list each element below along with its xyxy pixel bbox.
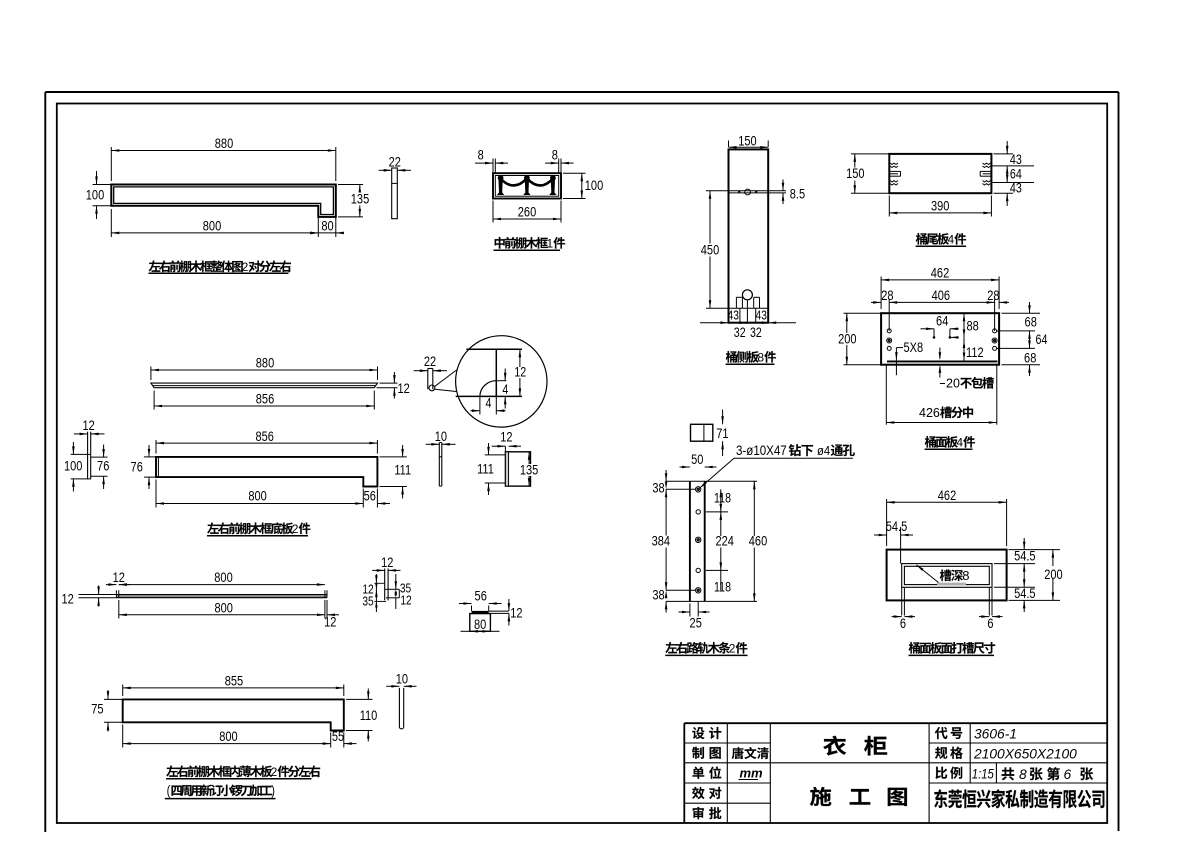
detail dim 4 vertical: [500, 369, 511, 409]
dim 800 bottom: [111, 209, 335, 237]
svg-text:460: 460: [749, 533, 767, 549]
svg-text:8: 8: [1019, 767, 1027, 782]
svg-text:462: 462: [931, 265, 949, 281]
svg-text:20: 20: [946, 377, 960, 391]
svg-text:56: 56: [364, 488, 376, 504]
dim 880: [151, 355, 378, 380]
right cross-section profile 12/111/135: [505, 452, 530, 486]
label 桶面板面打槽尺寸: [909, 642, 996, 655]
dims 6 6 bottom: [892, 615, 1003, 631]
dim 135 right: [338, 185, 369, 217]
label 桶侧板8件: [726, 351, 776, 365]
svg-text:12: 12: [381, 555, 393, 571]
dim 460 right: [747, 481, 768, 601]
svg-text:1: 1: [547, 237, 554, 251]
label 5X8 with leader: [895, 340, 923, 375]
svg-text:800: 800: [219, 729, 237, 745]
svg-text:64: 64: [1036, 332, 1048, 348]
svg-text:135: 135: [520, 462, 538, 478]
svg-text:43: 43: [728, 308, 739, 322]
leader 3-Ø10X47钻下 Ø4通孔: [700, 443, 855, 488]
svg-text:75: 75: [91, 701, 103, 717]
svg-text:54.5: 54.5: [1014, 586, 1035, 602]
sheet 共8张第6张: [1002, 767, 1094, 782]
dim 111 right (row B): [380, 445, 413, 499]
dim 75 left: [91, 690, 122, 732]
svg-text:12: 12: [500, 429, 512, 445]
dim 22 of detail bar: [414, 354, 447, 372]
label 左右前棚木框整体图2对分左右: [149, 260, 291, 274]
svg-text:76: 76: [131, 459, 143, 475]
dim 462 top: [887, 488, 1007, 546]
svg-text:8.5: 8.5: [790, 186, 805, 202]
detail geometry inside balloon: [456, 349, 522, 396]
bottom tenon cluster with circle: [729, 290, 769, 323]
dim 12 bottom right (row C): [324, 600, 339, 630]
svg-text:8: 8: [552, 147, 558, 163]
label 左右路轨木条2件: [665, 642, 747, 656]
svg-text:200: 200: [1044, 567, 1062, 583]
svg-text:2: 2: [292, 522, 299, 536]
dim 200 left: [838, 313, 881, 365]
svg-text:38: 38: [652, 587, 664, 603]
svg-text:880: 880: [256, 355, 274, 371]
svg-text:25: 25: [690, 615, 702, 631]
product name 衣柜: [823, 736, 887, 756]
svg-text:50: 50: [691, 452, 703, 468]
svg-text:10: 10: [396, 671, 408, 687]
dim 12 top of right profile: [492, 429, 521, 452]
svg-text:2: 2: [271, 765, 278, 779]
svg-text:12: 12: [510, 605, 522, 621]
dim 800 bottom (row C): [119, 600, 325, 619]
svg-text:12: 12: [324, 614, 336, 630]
svg-text:43: 43: [756, 308, 767, 322]
dim 855 top: [123, 673, 344, 696]
svg-text:12: 12: [398, 381, 410, 397]
dim 12 right of 56 profile: [508, 599, 523, 626]
right hole group: [992, 329, 997, 351]
svg-text:64: 64: [1010, 166, 1022, 182]
part outline: 桶侧板 (tall side board): [729, 149, 769, 322]
dim 50 top: [680, 452, 717, 469]
svg-text:406: 406: [932, 288, 950, 304]
part outline: 中前棚木框 (frame with swag ornament): [493, 159, 561, 199]
drafter name 唐文清: [732, 747, 744, 759]
dim 150 top: [729, 133, 769, 149]
dim 880 top: [111, 136, 335, 181]
svg-text:4: 4: [502, 382, 508, 398]
svg-text:54.5: 54.5: [1014, 548, 1035, 564]
dim 28 406 28: [871, 288, 1009, 331]
dims 54.5 54.5 200 right: [994, 538, 1064, 612]
label 中前棚木框1件: [494, 237, 566, 251]
title block grid: [684, 723, 1106, 823]
dim 462 top: [881, 265, 999, 309]
dim 450 left: [700, 191, 729, 309]
dim 12 right of bar: [377, 372, 410, 399]
title block left labels: [692, 727, 721, 819]
svg-text:28: 28: [881, 288, 893, 304]
detail dim 12: [513, 349, 527, 396]
svg-text:800: 800: [248, 488, 266, 504]
svg-text:4: 4: [485, 395, 491, 411]
svg-text:76: 76: [97, 458, 109, 474]
svg-text:462: 462: [938, 488, 956, 504]
dim 8 left stub: [475, 147, 508, 164]
svg-text:3-ø10X47: 3-ø10X47: [736, 443, 787, 458]
svg-text:5X8: 5X8: [904, 340, 924, 356]
dim 56: [459, 588, 502, 611]
dim 12 far left thickness (row C): [61, 586, 116, 607]
svg-text:8: 8: [478, 147, 484, 163]
svg-text:): ): [271, 783, 275, 799]
dim 12 top of left profile: [74, 418, 105, 435]
svg-text:43: 43: [1010, 180, 1022, 196]
svg-text:800: 800: [203, 218, 221, 234]
strip outline: [666, 481, 757, 601]
dim 10: [426, 429, 456, 446]
svg-text:855: 855: [225, 673, 243, 689]
svg-text:ø4: ø4: [817, 443, 830, 458]
svg-text:150: 150: [846, 166, 864, 182]
dims 68 64 68 right: [997, 302, 1048, 376]
dim 100 left: [86, 171, 112, 219]
holes on strip: [696, 487, 701, 593]
svg-text:450: 450: [701, 242, 719, 258]
profile bar 22 with detail marker: [428, 369, 435, 391]
detail dim 4 horizontal: [471, 395, 506, 414]
svg-text:4: 4: [956, 436, 963, 450]
svg-text:800: 800: [214, 600, 232, 616]
svg-text:68: 68: [1024, 350, 1036, 366]
thin bar 10 (row D): [399, 688, 403, 729]
svg-text:856: 856: [256, 391, 274, 407]
svg-text:2: 2: [729, 642, 736, 656]
part outline: 桶面板 (top board with holes and groove): [881, 313, 999, 365]
center fastener dots and dim 64: [921, 313, 959, 339]
part outline: 桶尾板 (board with end tenons): [889, 154, 991, 193]
svg-text:56: 56: [475, 588, 487, 604]
dim 260 bottom: [493, 201, 561, 223]
label 左右前棚木框底板2件: [207, 522, 310, 536]
right labels 代号 规格 比例: [935, 727, 963, 779]
svg-text:426: 426: [919, 406, 940, 420]
dim 56 (row B): [364, 488, 390, 507]
swag ornament inside frame: [498, 176, 556, 195]
svg-text:68: 68: [1025, 314, 1037, 330]
svg-text:32: 32: [734, 325, 746, 341]
dim 800 bottom (row D): [123, 725, 331, 748]
svg-text:118: 118: [714, 579, 731, 595]
svg-text:6: 6: [900, 616, 906, 632]
label 左右前棚木框内薄木板2件分左右: [166, 765, 320, 779]
part outline: 左右前棚木框整体图 (frame bar with step): [111, 185, 335, 217]
groove lines 8.5: [729, 191, 787, 193]
inner drawing border: [57, 104, 1107, 824]
groove length extension 426槽分中: [886, 365, 997, 425]
svg-text:22: 22: [389, 154, 401, 170]
label 桶面板4件: [925, 436, 975, 450]
dim 856 top (row B): [156, 429, 377, 454]
svg-text:111: 111: [477, 461, 494, 477]
left cross-section profile 12/100/76: [71, 432, 108, 480]
svg-text:88: 88: [967, 318, 979, 334]
top small rect with dim 71: [691, 410, 729, 457]
main part 底板 outline (row B): [156, 457, 377, 487]
right dims 35/12 of L profile: [395, 574, 412, 609]
svg-text:260: 260: [518, 204, 536, 220]
svg-text:384: 384: [652, 533, 670, 549]
svg-text:12: 12: [61, 591, 73, 607]
dim 80 bottom right: [310, 218, 344, 234]
svg-text:224: 224: [715, 533, 733, 549]
thin bar 10 profile: [439, 443, 442, 487]
dim 25 bottom: [679, 601, 710, 630]
svg-text:2: 2: [242, 260, 249, 274]
dim 390 bottom: [889, 196, 991, 217]
svg-text:100: 100: [64, 458, 82, 474]
svg-text:12: 12: [514, 364, 526, 380]
svg-text:135: 135: [351, 191, 369, 207]
56/80 end profile: [470, 611, 509, 631]
svg-text:8: 8: [962, 568, 969, 583]
label 桶尾板4件: [916, 233, 966, 247]
svg-text:22: 22: [424, 354, 436, 370]
outer drawing border: [45, 92, 1118, 832]
dim 10 (row D): [386, 671, 416, 688]
dim 100 right: [563, 173, 603, 198]
leader lines to detail circle: [435, 370, 457, 392]
part outline 855 (row D): [123, 699, 344, 730]
dim 8 right stub: [545, 147, 574, 164]
thin board 880/856 edge view: [151, 383, 378, 388]
end profile bar 22 of drawing1: [392, 168, 398, 219]
dim 856 below bar: [154, 391, 374, 410]
dim 100 left profile: [64, 442, 82, 492]
dim 800 top (row C): [119, 570, 325, 586]
svg-text:12: 12: [400, 593, 411, 607]
svg-text:35: 35: [362, 594, 374, 608]
svg-text:32: 32: [750, 325, 762, 341]
dim 8.5 right: [782, 180, 805, 205]
left tenon: [889, 163, 900, 185]
svg-text:28: 28: [987, 288, 999, 304]
left hole group: [887, 329, 892, 351]
dim 800 bottom (row B): [156, 480, 363, 508]
svg-text:55: 55: [332, 729, 344, 745]
svg-text:10: 10: [435, 429, 447, 445]
svg-text:12: 12: [82, 418, 94, 434]
svg-text:2100X650X2100: 2100X650X2100: [973, 747, 1077, 762]
dim 43 32 32 43 bottom: [700, 308, 796, 340]
svg-text:200: 200: [838, 331, 856, 347]
dim 55 (row D): [332, 729, 357, 748]
svg-text:800: 800: [214, 570, 232, 586]
svg-text:390: 390: [931, 198, 949, 214]
unit mm: [739, 766, 764, 781]
dim 135 inside right profile: [520, 452, 539, 486]
dim 88 and 112 vertical: [963, 313, 984, 360]
middle dims 118 224 118: [706, 489, 735, 595]
svg-text:110: 110: [360, 708, 378, 724]
svg-text:111: 111: [394, 462, 411, 478]
dim 12 top of L profile: [372, 555, 400, 572]
svg-text:mm: mm: [740, 766, 764, 781]
dim 111 left of right profile: [477, 443, 505, 495]
part outline 462x200 with groove: [887, 550, 1007, 601]
dim 12 top-left tab (row C): [106, 570, 130, 586]
svg-text:80: 80: [474, 617, 486, 633]
company 东莞恒兴家私制造有限公司: [934, 789, 1104, 808]
svg-text:1:15: 1:15: [972, 767, 995, 782]
label (四周用新订小锣刀加工): [165, 783, 276, 799]
leader 20不包槽: [939, 348, 994, 391]
groove double rectangle: [902, 564, 992, 616]
thin board 800 edge view (row C): [116, 590, 327, 597]
svg-text:71: 71: [716, 426, 728, 442]
leader 槽深8: [916, 565, 969, 585]
dim 150 left: [845, 154, 889, 193]
svg-text:3606-1: 3606-1: [974, 727, 1017, 742]
svg-text:6: 6: [1064, 767, 1072, 782]
svg-text:880: 880: [215, 136, 233, 152]
svg-text:6: 6: [987, 616, 993, 632]
drawing type 施工图: [810, 787, 907, 806]
svg-text:80: 80: [321, 218, 333, 234]
left dims 12/35 of L profile: [362, 574, 386, 612]
left dims 38 384 38: [652, 470, 695, 613]
svg-text:54.5: 54.5: [886, 519, 907, 535]
svg-text:856: 856: [255, 429, 273, 445]
right tenon: [980, 163, 991, 185]
svg-text:100: 100: [585, 178, 603, 194]
svg-text:38: 38: [652, 480, 664, 496]
dim 76 left profile: [97, 445, 109, 490]
L-angle profile 12/35: [385, 569, 400, 601]
svg-text:100: 100: [86, 187, 104, 203]
dim 22: [379, 154, 411, 171]
groove bar: [887, 361, 998, 363]
detail circle balloon: [456, 336, 547, 427]
svg-text:4: 4: [948, 233, 955, 247]
dim 54.5 top-left: [874, 519, 913, 564]
hole circle and dots on groove: [738, 189, 757, 195]
dims 43 64 43 right: [991, 141, 1034, 206]
dim 80 inside rect: [461, 617, 500, 633]
svg-text:64: 64: [936, 313, 948, 329]
dim 110 right (row D): [346, 689, 378, 742]
svg-text:118: 118: [714, 490, 731, 506]
svg-text:43: 43: [1010, 152, 1022, 168]
svg-text:112: 112: [966, 345, 984, 361]
svg-text:150: 150: [738, 133, 756, 149]
svg-text:12: 12: [113, 570, 125, 586]
svg-text:8: 8: [757, 351, 764, 365]
dim 76 left of part: [131, 445, 156, 489]
